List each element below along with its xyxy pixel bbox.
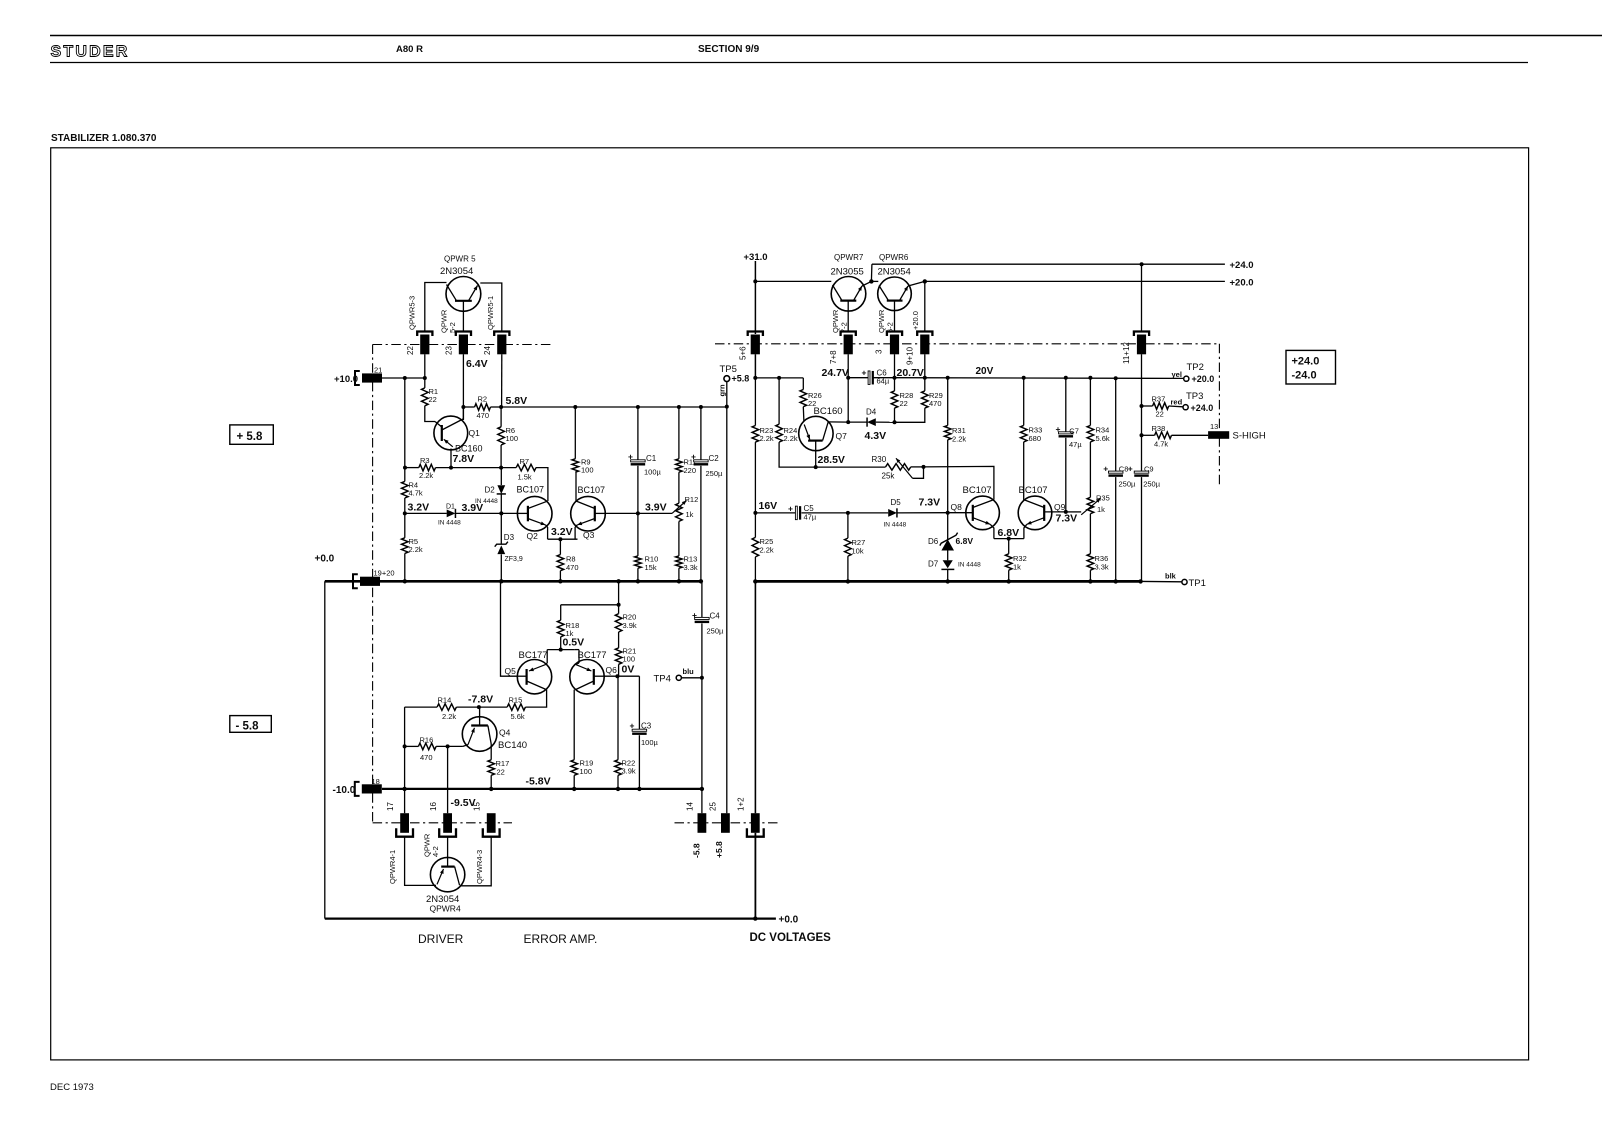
connector pin 17 (400, 813, 409, 833)
wire QPWR4 to pin15 (460, 837, 492, 886)
svg-text:64µ: 64µ (877, 377, 890, 386)
svg-text:+: + (691, 452, 696, 462)
svg-text:21: 21 (374, 366, 382, 375)
wire 20V rail (895, 377, 1184, 380)
capacitor C3 100u (638, 676, 640, 731)
svg-text:4.7k: 4.7k (409, 489, 423, 498)
svg-text:BC177: BC177 (519, 650, 548, 661)
resistor R26 22 (802, 378, 804, 390)
svg-text:+5.8: +5.8 (714, 841, 724, 858)
svg-text:TP2: TP2 (1187, 362, 1204, 373)
svg-text:470: 470 (420, 753, 433, 762)
resistor R19 100 (571, 760, 578, 776)
svg-text:STABILIZER 1.080.370: STABILIZER 1.080.370 (51, 133, 157, 144)
svg-text:DRIVER: DRIVER (418, 932, 464, 946)
wire +24.0 rail (872, 263, 1225, 265)
svg-text:1k: 1k (1013, 563, 1021, 572)
svg-text:2.2k: 2.2k (952, 435, 966, 444)
wire left frame of lower block (324, 581, 326, 918)
resistor R24 2.2k (778, 378, 780, 424)
resistor R6 100 (500, 407, 502, 427)
resistor R25 2.2k (754, 513, 756, 538)
svg-text:grn: grn (718, 384, 727, 397)
resistor R22 3.9k (617, 676, 619, 760)
wire Q9 collector to R33 (1023, 442, 1025, 500)
transistor QPWR7 2N3055 (831, 277, 866, 312)
svg-text:100: 100 (623, 655, 636, 664)
board boundary dash-dot left vertical (372, 345, 374, 823)
board boundary dash-dot left top (373, 344, 551, 346)
wire 5.8V rail (501, 406, 727, 408)
wire Q7 collector to node (828, 421, 848, 423)
svg-text:BC107: BC107 (1019, 485, 1048, 496)
grn column TP5 to pin 25 (726, 382, 728, 814)
svg-text:+: + (1056, 424, 1061, 434)
svg-text:2.2k: 2.2k (760, 546, 774, 555)
resistor R36 3.3k (1087, 554, 1094, 570)
svg-text:R15: R15 (509, 696, 523, 705)
svg-text:6.8V: 6.8V (998, 527, 1020, 539)
svg-text:250µ: 250µ (1143, 480, 1161, 489)
svg-text:23: 23 (445, 346, 454, 355)
wire -10 rail to pin 17 (404, 789, 406, 813)
svg-text:5.6k: 5.6k (1096, 434, 1110, 443)
svg-text:QPWR 5: QPWR 5 (444, 255, 476, 264)
trimmer R12 1k (676, 503, 683, 521)
svg-text:BC160: BC160 (455, 444, 483, 454)
capacitor C8 250u (1115, 378, 1117, 472)
board boundary dash-dot bottom-middle row (675, 822, 779, 824)
transistor Q2 BC107 (517, 496, 552, 531)
connector pin 9+10 (917, 332, 932, 337)
voltage legend box +5.8 (230, 425, 273, 444)
svg-text:+5.8: +5.8 (732, 374, 750, 384)
svg-text:+20.0: +20.0 (911, 311, 920, 330)
svg-text:C9: C9 (1144, 465, 1154, 474)
resistor R9 100 (574, 407, 576, 459)
trimmer R30 25k (886, 464, 911, 471)
svg-text:QPWR5-1: QPWR5-1 (486, 296, 495, 330)
trimmer R35 1k (1087, 497, 1094, 513)
wire emitters 6.8V junction (994, 538, 1024, 540)
wire emitters 3.2V junction (548, 538, 578, 540)
svg-text:D6: D6 (928, 537, 939, 546)
svg-text:C7: C7 (1069, 426, 1079, 435)
wire R18 top jog (561, 604, 619, 606)
svg-text:4.7k: 4.7k (1154, 440, 1168, 449)
resistor R23 2.2k (754, 378, 756, 426)
svg-text:blu: blu (683, 667, 695, 676)
board boundary dash-dot right top (715, 343, 1219, 345)
wire pin16 column / -9.5V (447, 746, 449, 813)
capacitor C5 47u (795, 506, 797, 520)
svg-text:D4: D4 (866, 408, 877, 417)
svg-text:680: 680 (1029, 434, 1042, 443)
svg-text:25: 25 (709, 802, 718, 811)
svg-text:blk: blk (1165, 572, 1177, 581)
wire QPWR6 emitter to +20 node (908, 281, 925, 286)
svg-text:2.2k: 2.2k (760, 434, 774, 443)
svg-text:R14: R14 (438, 696, 452, 705)
svg-text:DC VOLTAGES: DC VOLTAGES (750, 932, 832, 944)
resistor R10 15k (637, 513, 639, 556)
svg-text:24: 24 (483, 346, 492, 355)
svg-text:2N3054: 2N3054 (440, 266, 473, 277)
wire R24 to 28.5V row (779, 442, 886, 467)
wire Q6 emitter (575, 649, 579, 651)
svg-text:- 5.8: - 5.8 (236, 721, 260, 733)
connector pin 25 (+5.8) (721, 813, 730, 833)
wire bottom +0.0 rail (325, 917, 776, 919)
svg-text:+31.0: +31.0 (744, 252, 768, 263)
wire 3.9V row with diode D1 (405, 512, 447, 514)
svg-text:BC160: BC160 (814, 406, 843, 417)
resistor R20 3.9k (618, 581, 620, 613)
diode D4 (848, 421, 867, 423)
svg-text:Q4: Q4 (499, 728, 511, 738)
svg-text:+24.0: +24.0 (1230, 260, 1254, 271)
svg-text:IN 4448: IN 4448 (884, 522, 907, 529)
svg-text:QPWR4-1: QPWR4-1 (388, 850, 397, 884)
svg-text:22: 22 (1156, 410, 1164, 419)
svg-text:+: + (862, 368, 867, 378)
svg-text:STUDER: STUDER (51, 44, 130, 61)
svg-text:R12: R12 (685, 495, 699, 504)
connector pin 24 (494, 332, 509, 337)
svg-text:3.9V: 3.9V (462, 502, 484, 514)
svg-text:+: + (692, 610, 697, 620)
svg-text:QPWR7: QPWR7 (834, 253, 864, 262)
svg-text:3.2V: 3.2V (551, 526, 573, 538)
wire Q5 emitter up to 0.5V node (546, 650, 548, 663)
svg-text:3.9k: 3.9k (622, 767, 636, 776)
svg-text:DEC 1973: DEC 1973 (50, 1082, 94, 1093)
svg-text:25k: 25k (882, 472, 896, 481)
capacitor C4 250u (701, 581, 703, 619)
svg-text:R37: R37 (1152, 395, 1166, 404)
svg-text:Q8: Q8 (951, 502, 963, 512)
capacitor C1 100u (637, 407, 639, 462)
zener D3 ZF3,9 (500, 513, 502, 543)
wire TP1 stub blk (1141, 580, 1182, 582)
svg-text:6.4V: 6.4V (466, 358, 488, 370)
svg-text:C4: C4 (710, 612, 721, 621)
resistor R7 1.5k (516, 464, 536, 471)
svg-text:1k: 1k (566, 629, 574, 638)
svg-text:0V: 0V (622, 664, 635, 676)
capacitor C6 64u (868, 371, 870, 385)
svg-text:+ 5.8: + 5.8 (237, 431, 264, 443)
test point TP1 (1182, 579, 1187, 584)
svg-text:+0.0: +0.0 (779, 915, 799, 926)
svg-text:Q7: Q7 (836, 431, 848, 441)
svg-text:7.3V: 7.3V (1056, 513, 1078, 525)
voltage legend box +24.0 / -24.0 (1286, 350, 1336, 384)
node +31 to QPWR7 (753, 279, 757, 283)
svg-text:C2: C2 (709, 454, 720, 463)
svg-text:BC107: BC107 (578, 485, 606, 495)
svg-text:16: 16 (429, 802, 438, 811)
trimmer R35 1k wiper wire (1066, 511, 1081, 513)
resistor R16 470 (405, 745, 419, 747)
svg-text:C3: C3 (641, 722, 652, 731)
wire -10.0 / -5.8 rail (382, 788, 702, 790)
svg-text:+20.0: +20.0 (1192, 374, 1215, 384)
svg-text:R3: R3 (420, 456, 430, 465)
wire Q5 base from 0.0 rail (501, 581, 518, 676)
svg-text:100: 100 (581, 466, 594, 475)
connector pin 5+6 (748, 332, 763, 337)
resistor R27 10k (847, 513, 849, 538)
svg-text:Q6: Q6 (606, 665, 618, 675)
zener D6 6.8V (947, 513, 949, 540)
diode D7 IN4448 (947, 551, 949, 561)
svg-text:Q5: Q5 (505, 666, 517, 676)
svg-text:yel: yel (1172, 370, 1182, 379)
wire R14 left column (404, 707, 406, 789)
resistor R37 22 to TP3 (1142, 405, 1153, 407)
svg-text:+: + (630, 721, 635, 731)
svg-text:16V: 16V (759, 500, 778, 512)
svg-text:10k: 10k (852, 547, 864, 556)
svg-text:14: 14 (686, 802, 695, 811)
svg-text:2.2k: 2.2k (784, 434, 798, 443)
test point TP3 (1183, 405, 1188, 410)
connector pin 1+2 (0.0) (751, 813, 760, 833)
wire R15 to Q5 collector (525, 694, 546, 707)
svg-text:22: 22 (406, 346, 415, 355)
transistor Q4 BC140 (462, 717, 497, 752)
svg-text:3.9k: 3.9k (623, 621, 637, 630)
svg-text:7.8V: 7.8V (453, 453, 475, 465)
lead pin22 to QPWR5 collector (425, 283, 447, 332)
wire R29 jog to D4 node (895, 408, 925, 422)
svg-text:IN 4448: IN 4448 (958, 562, 981, 569)
svg-text:D2: D2 (485, 486, 496, 495)
connector pin 18 (-10.0) (355, 782, 360, 796)
svg-text:D3: D3 (504, 533, 515, 542)
svg-text:-5.8: -5.8 (692, 843, 702, 858)
header rule top (50, 35, 1602, 37)
transistor Q5 BC177 (517, 660, 551, 694)
svg-text:24.7V: 24.7V (822, 367, 849, 379)
resistor R21 100 (615, 648, 622, 664)
wire +20.0 rail (925, 280, 1225, 282)
wire 0.0 rail right (755, 580, 1140, 583)
resistor R4 4.7k (404, 378, 406, 481)
connector pin 11+12 (1134, 332, 1149, 337)
svg-text:+24.0: +24.0 (1292, 356, 1320, 368)
lead pin23 to QPWR5 base (462, 311, 464, 331)
svg-text:250µ: 250µ (707, 627, 725, 636)
lead pin24 to QPWR5 emitter (480, 283, 502, 332)
diode D2 IN4448 (500, 468, 502, 485)
svg-text:+0.0: +0.0 (315, 554, 335, 565)
svg-text:ZF3,9: ZF3,9 (505, 556, 523, 563)
svg-text:QPWR6: QPWR6 (879, 253, 909, 262)
transistor Q6 BC177 (mirrored) (570, 660, 604, 694)
svg-text:R38: R38 (1152, 424, 1166, 433)
svg-text:28.5V: 28.5V (818, 454, 845, 466)
resistor R33 680 (1023, 378, 1025, 426)
svg-text:D7: D7 (928, 560, 939, 569)
test point TP4 blu (676, 675, 681, 680)
svg-text:TP3: TP3 (1186, 391, 1203, 402)
wire R1 to Q1 base (425, 406, 435, 422)
svg-text:100: 100 (580, 767, 593, 776)
svg-text:QPWR5-3: QPWR5-3 (408, 296, 417, 330)
svg-text:20V: 20V (976, 366, 994, 377)
svg-text:2.2k: 2.2k (409, 545, 423, 554)
resistor R1 22 (424, 378, 426, 388)
wire 6.4V column into Q1 (462, 407, 464, 419)
svg-text:13: 13 (1210, 422, 1218, 431)
svg-text:18: 18 (372, 777, 380, 786)
node 0.0 rail left (325, 580, 701, 583)
diode D5 IN4448 (848, 512, 888, 514)
board boundary dash-dot bottom-left row (373, 822, 512, 824)
svg-text:QPWR4-3: QPWR4-3 (475, 850, 484, 884)
svg-text:IN 4448: IN 4448 (438, 520, 461, 527)
svg-text:R2: R2 (478, 395, 488, 404)
svg-text:250µ: 250µ (1119, 480, 1137, 489)
resistor R32 1k (1008, 539, 1010, 554)
svg-text:19+20: 19+20 (374, 569, 395, 578)
svg-text:-10.0: -10.0 (333, 785, 356, 796)
svg-text:TP1: TP1 (1189, 578, 1206, 589)
svg-text:22: 22 (497, 768, 505, 777)
svg-text:-24.0: -24.0 (1292, 370, 1317, 382)
drawing frame (51, 148, 1529, 1060)
resistor R17 22 (490, 744, 492, 760)
svg-text:-7.8V: -7.8V (468, 694, 493, 706)
svg-text:5.6k: 5.6k (511, 712, 525, 721)
wire pin17 to QPWR4 (405, 837, 436, 886)
svg-text:0.5V: 0.5V (563, 637, 585, 649)
resistor R2 470 (475, 404, 491, 411)
svg-text:470: 470 (566, 563, 579, 572)
svg-text:1k: 1k (1097, 505, 1105, 514)
svg-text:red: red (1171, 398, 1183, 407)
test point TP2 yel (1184, 376, 1189, 381)
resistor R15 5.6k (507, 704, 525, 711)
wire 16V row (755, 512, 795, 514)
svg-text:D1: D1 (446, 504, 455, 511)
resistor R3 2.2k (419, 464, 436, 471)
wire R7 to Q2 collector (536, 468, 548, 501)
svg-text:3.9V: 3.9V (645, 502, 667, 514)
svg-text:3: 3 (875, 349, 884, 354)
transistor QPWR5 2N3054 (446, 277, 481, 312)
connector pin 16 (443, 813, 452, 833)
svg-text:A80 R: A80 R (396, 44, 423, 55)
wire +5.8 feed to R26 (755, 377, 803, 379)
header rule bottom (50, 62, 1528, 64)
connector pin 22 (417, 332, 432, 337)
svg-text:220: 220 (684, 466, 697, 475)
resistor R13 3.3k (676, 556, 683, 568)
resistor R28 22 (894, 378, 896, 391)
transistor Q9 BC107 (mirrored) (1018, 496, 1052, 530)
svg-text:470: 470 (477, 411, 490, 420)
svg-text:2.2k: 2.2k (442, 712, 456, 721)
connector pin 14 (-5.8) (698, 813, 707, 833)
capacitor C2 250u (700, 407, 702, 462)
svg-text:5-2: 5-2 (448, 322, 457, 333)
resistor R29 470 (924, 378, 926, 391)
svg-text:Q2: Q2 (527, 531, 539, 541)
svg-text:100: 100 (506, 434, 519, 443)
resistor R31 2.2k (947, 378, 949, 426)
svg-text:+: + (1128, 464, 1133, 474)
svg-text:22: 22 (900, 399, 908, 408)
svg-text:3.3k: 3.3k (1095, 563, 1109, 572)
svg-text:7.3V: 7.3V (919, 497, 941, 509)
svg-text:QPWR4: QPWR4 (430, 904, 461, 914)
svg-text:Q3: Q3 (583, 530, 595, 540)
svg-text:4-2: 4-2 (431, 846, 440, 857)
svg-text:470: 470 (929, 399, 942, 408)
svg-text:+: + (1103, 464, 1108, 474)
svg-text:BC177: BC177 (578, 650, 607, 661)
svg-text:22: 22 (429, 395, 437, 404)
svg-text:11+12: 11+12 (1122, 342, 1131, 364)
wire 0V node (605, 675, 640, 677)
svg-text:C1: C1 (646, 454, 657, 463)
svg-text:3.2V: 3.2V (408, 502, 430, 514)
wire Q3 base to R12 wiper (605, 512, 672, 514)
connector pin 3 (887, 332, 902, 337)
svg-text:Q9: Q9 (1054, 502, 1066, 512)
svg-text:Q1: Q1 (469, 428, 481, 438)
svg-text:TP4: TP4 (654, 674, 671, 685)
svg-text:S-HIGH: S-HIGH (1233, 431, 1266, 442)
resistor R18 1k (560, 605, 562, 620)
resistor R11 220 (678, 407, 680, 459)
svg-text:15k: 15k (645, 563, 657, 572)
svg-text:R16: R16 (420, 736, 434, 745)
connector pin 7+8 (841, 332, 856, 337)
transistor QPWR4 2N3054 (430, 857, 464, 891)
wire Q3 collector to R9 (575, 472, 577, 501)
svg-text:BC140: BC140 (498, 740, 527, 751)
resistor R5 2.2k (402, 538, 409, 554)
svg-text:+10.0: +10.0 (334, 374, 358, 385)
resistor R14 2.2k (405, 706, 438, 708)
transistor Q1 BC160 (434, 416, 468, 450)
transistor Q8 BC107 (966, 496, 1000, 530)
DC voltages spine (pins 1+2) (754, 261, 756, 334)
svg-text:47µ: 47µ (804, 513, 817, 522)
svg-text:+24.0: +24.0 (1191, 403, 1214, 413)
svg-text:+: + (788, 504, 793, 514)
svg-text:-5.8V: -5.8V (526, 776, 551, 788)
resistor R34 5.6k (1089, 378, 1091, 426)
svg-text:R7: R7 (520, 457, 530, 466)
wire 7.8V row (405, 467, 419, 469)
svg-text:2.2k: 2.2k (419, 471, 433, 480)
wire R26 into Q7 emitter (802, 407, 805, 422)
svg-text:+: + (628, 452, 633, 462)
svg-text:R35: R35 (1096, 494, 1110, 503)
svg-text:15: 15 (473, 802, 482, 811)
transistor QPWR6 2N3054 (878, 277, 912, 311)
svg-text:3.3k: 3.3k (684, 563, 698, 572)
svg-text:4.3V: 4.3V (865, 430, 887, 442)
svg-text:5+6: 5+6 (739, 346, 748, 360)
wire R30 to Q8 collector (924, 466, 994, 499)
connector pin 15 (487, 813, 496, 833)
